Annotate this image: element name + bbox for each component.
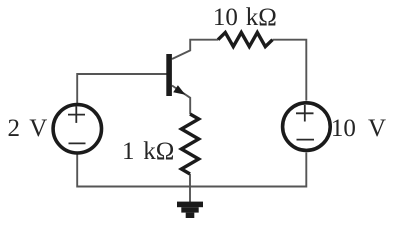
svg-text:kΩ: kΩ	[143, 138, 174, 165]
label 10 kOhm	[213, 4, 277, 31]
svg-text:10: 10	[331, 115, 356, 142]
wire ground stub	[189, 187, 191, 203]
transistor Q1 (NPN): base bar and emitter arrow	[166, 54, 185, 96]
svg-text:1: 1	[122, 138, 135, 165]
voltage source V2 10 V (circle with plus/minus)	[283, 103, 331, 151]
label 10 V	[331, 115, 386, 142]
wire collector to 10k resistor	[172, 40, 218, 59]
voltage source V1 2 V (circle with plus/minus)	[53, 105, 101, 153]
wire 10k resistor to V2 top	[273, 40, 307, 101]
wire 1k resistor to bottom rail	[189, 174, 191, 187]
svg-text:V: V	[368, 115, 386, 142]
svg-text:10: 10	[213, 4, 238, 31]
svg-text:2: 2	[8, 115, 21, 142]
label 2 V	[8, 115, 48, 142]
resistor 10 kOhm (horizontal zigzag)	[218, 33, 273, 47]
svg-text:kΩ: kΩ	[246, 4, 277, 31]
wire emitter to 1k resistor	[172, 86, 190, 115]
svg-text:V: V	[29, 115, 47, 142]
ground symbol (stepped earth)	[177, 202, 203, 218]
wire bottom rail: V1 bottom to V2 bottom	[77, 153, 306, 187]
resistor 1 kOhm (vertical zigzag)	[181, 114, 198, 174]
label 1 kOhm	[122, 138, 174, 165]
wire base: V1 top to transistor base	[77, 74, 166, 103]
